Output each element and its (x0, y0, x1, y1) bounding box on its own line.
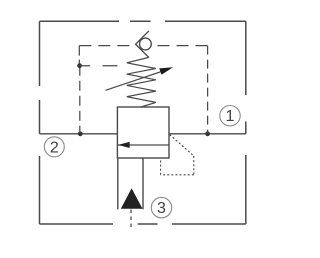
wire internal flow path (117, 144, 169, 146)
wire envelope top edge (40, 20, 246, 22)
svg-text:3: 3 (157, 200, 166, 217)
node junction dot left (pilot tap) (78, 131, 83, 136)
port 2 label (circled 2) (44, 137, 64, 157)
spring (adjustable relief spring zig-zag) (127, 58, 156, 108)
port 1 label (circled 1) (220, 106, 240, 126)
relief valve main stage V1 (square body) (117, 107, 169, 158)
flow direction arrowhead (points left to port 2) (118, 142, 129, 148)
node junction dot right (pilot tap) (205, 131, 210, 136)
pilot relief envelope (inner dashed rectangle) (79, 46, 207, 133)
wire envelope right edge (245, 21, 247, 224)
poppet seat triangle (solid, points up) (121, 188, 143, 208)
wire envelope left edge (39, 21, 41, 224)
node junction dot at pilot branch (77, 63, 82, 68)
wire inner dashed left edge lower (79, 66, 81, 133)
wire inner dashed right edge (207, 46, 209, 133)
wire inner dashed top line (through check valve) (79, 45, 207, 47)
svg-text:2: 2 (50, 139, 59, 156)
adjustment arrow across spring (106, 71, 164, 90)
wire dashed port 3 stub below triangle (130, 210, 132, 231)
envelope (cartridge assembly boundary, long-dash rectangle) (40, 21, 246, 224)
valve nose section (lower rectangle to port 3) (118, 158, 143, 209)
wire envelope bottom edge (40, 223, 246, 225)
check valve C1 (ball in vee seat) (136, 31, 152, 58)
wire dashed pilot branch to spring chamber (80, 65, 118, 67)
wire main flow line port1 side (right) (169, 133, 246, 135)
wire inner dashed left edge upper (78, 46, 80, 66)
port 3 label (circled 3) (151, 197, 171, 217)
svg-text:1: 1 (226, 108, 235, 125)
wire main flow line port2 side (left) (40, 133, 118, 135)
wire dotted pilot sense loop (right of main stage) (161, 135, 194, 175)
